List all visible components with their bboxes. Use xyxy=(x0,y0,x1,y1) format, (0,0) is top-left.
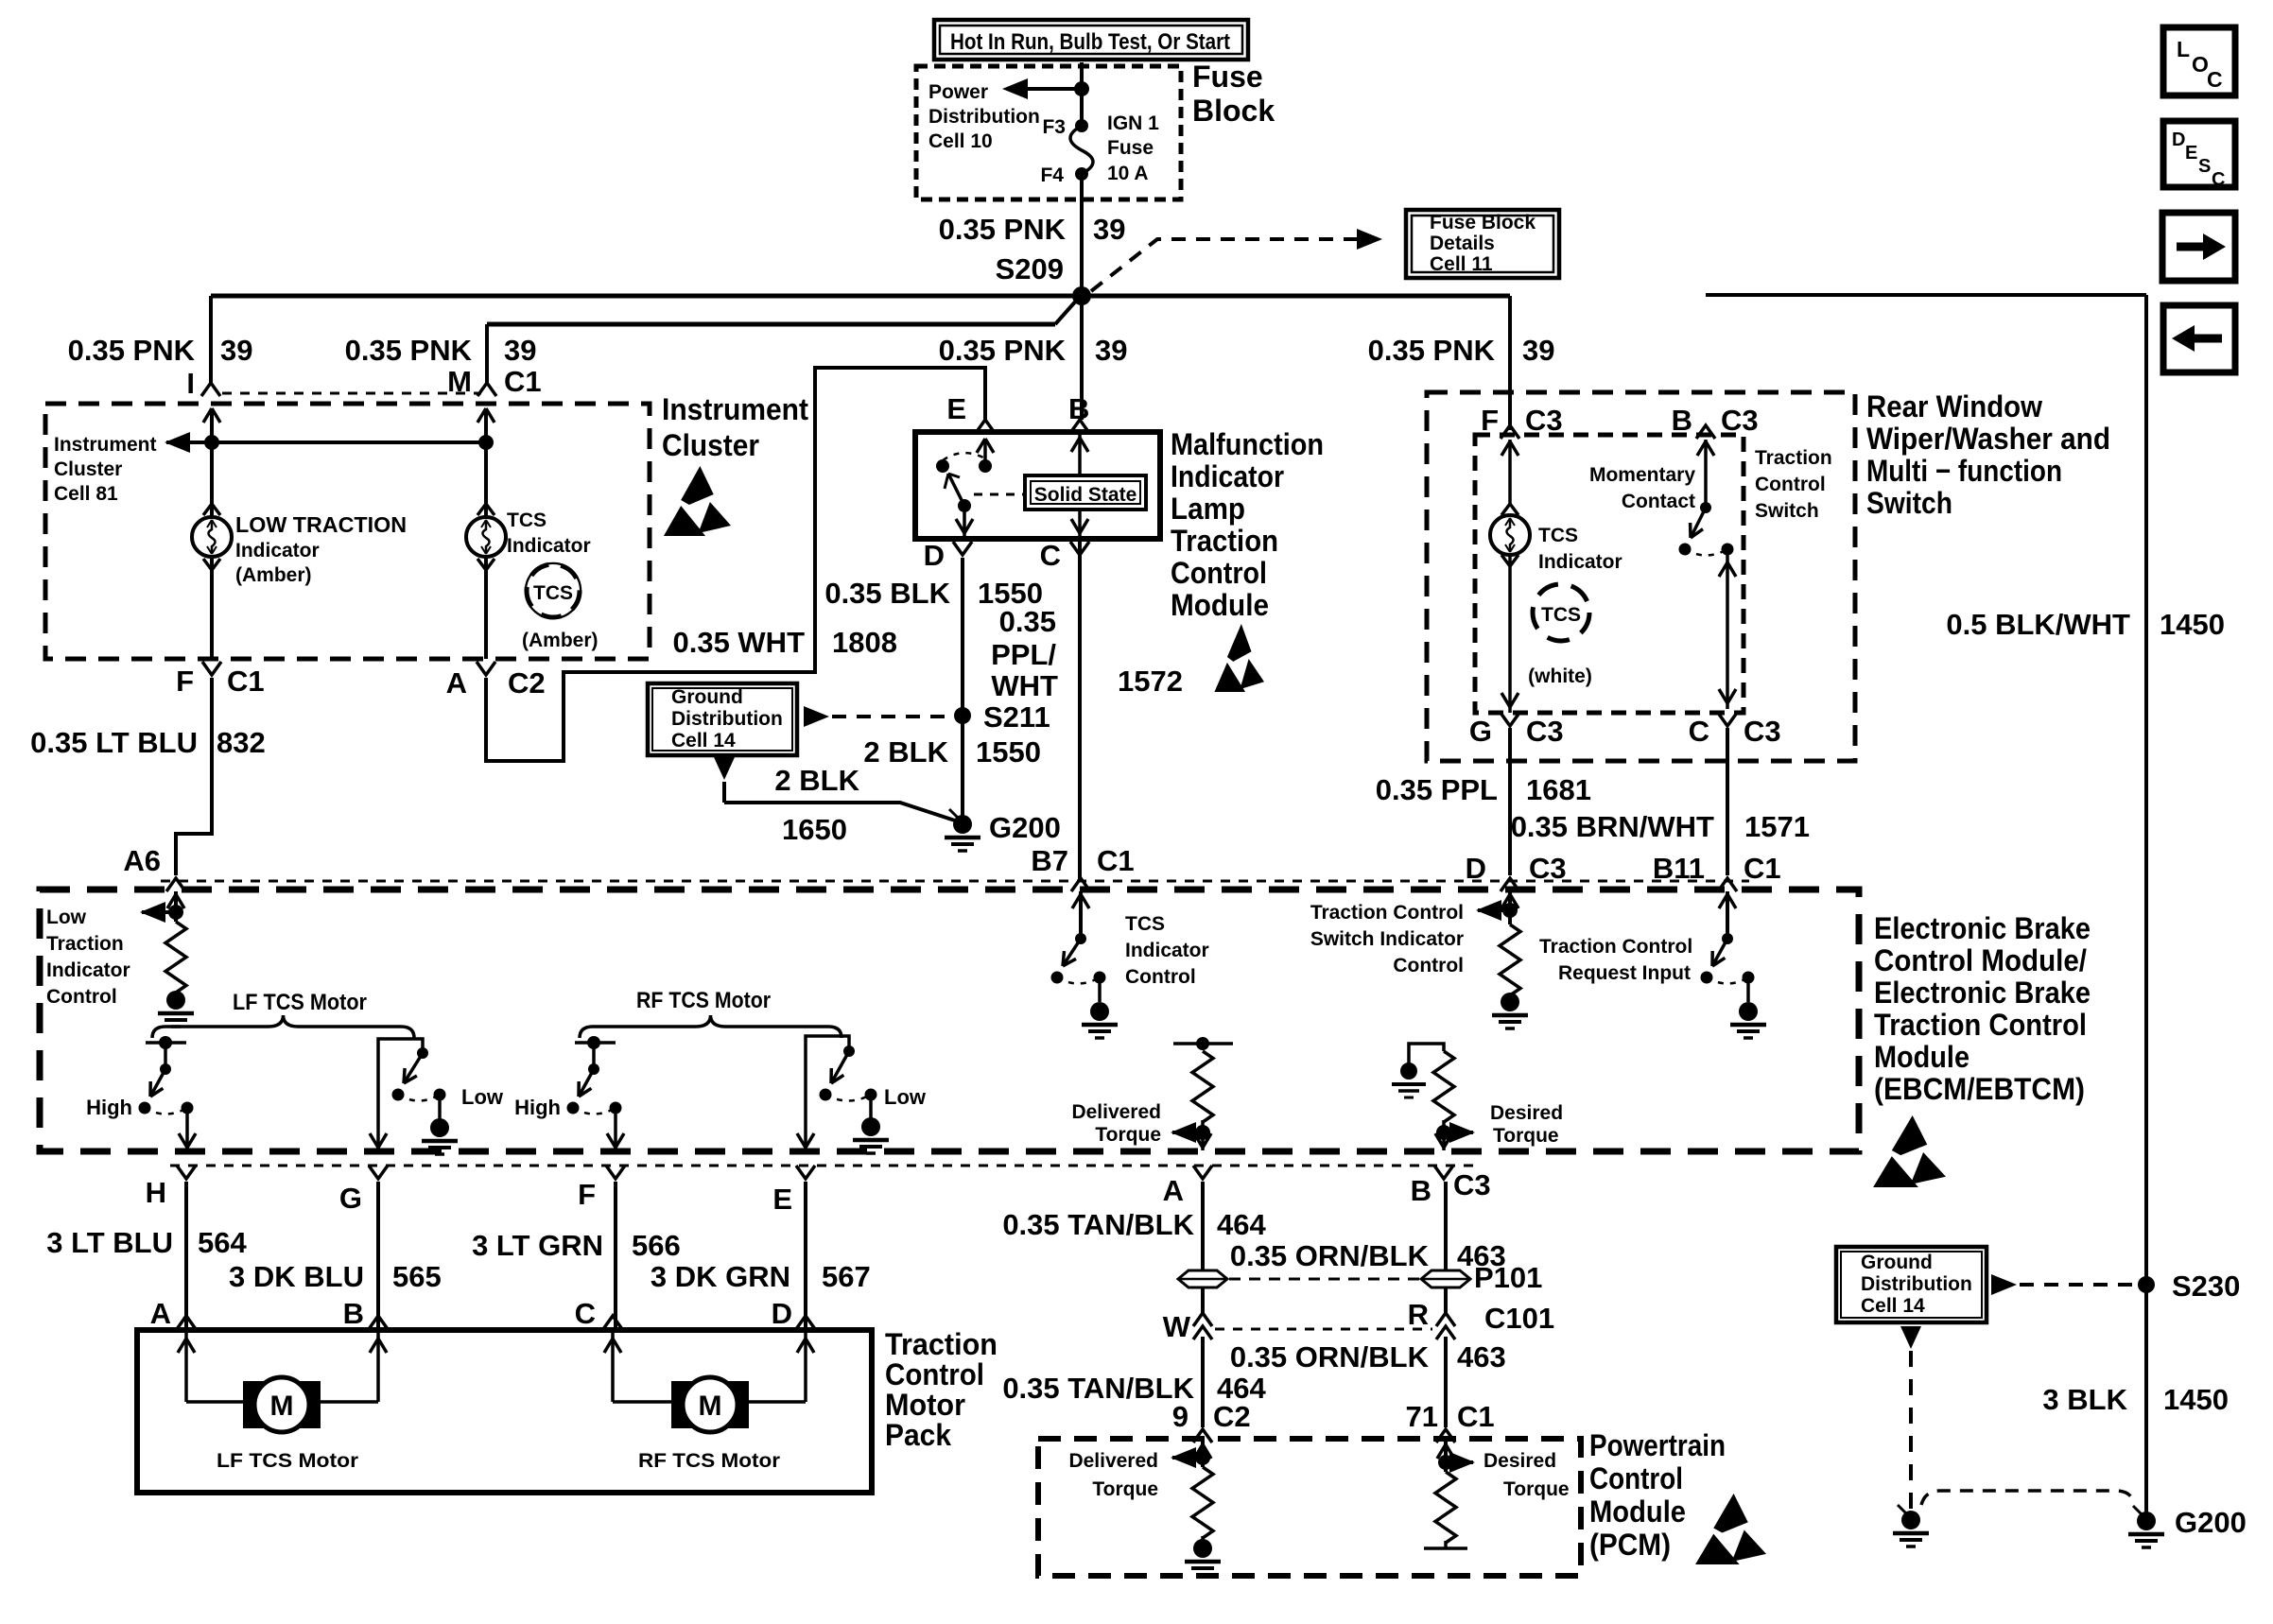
svg-text:Traction: Traction xyxy=(1755,447,1832,469)
svg-text:S209: S209 xyxy=(996,252,1064,285)
svg-text:Cell 81: Cell 81 xyxy=(54,483,118,505)
svg-text:1572: 1572 xyxy=(1118,665,1183,698)
svg-text:Low: Low xyxy=(46,907,87,928)
svg-text:Torque: Torque xyxy=(1493,1125,1559,1147)
svg-text:R: R xyxy=(1408,1298,1429,1331)
svg-text:F: F xyxy=(1481,404,1499,437)
svg-text:C: C xyxy=(2212,169,2225,190)
svg-text:(EBCM/EBTCM): (EBCM/EBTCM) xyxy=(1874,1072,2085,1106)
svg-text:C1: C1 xyxy=(504,365,542,398)
svg-text:Indicator: Indicator xyxy=(46,959,130,981)
svg-text:Details: Details xyxy=(1430,233,1495,254)
svg-text:1571: 1571 xyxy=(1744,810,1810,843)
svg-text:C1: C1 xyxy=(227,665,265,698)
svg-text:IGN 1: IGN 1 xyxy=(1107,112,1159,134)
svg-text:2 BLK: 2 BLK xyxy=(863,735,948,769)
svg-text:Control: Control xyxy=(1171,556,1267,590)
svg-text:3 BLK: 3 BLK xyxy=(2042,1383,2127,1416)
svg-text:Instrument: Instrument xyxy=(662,392,808,426)
svg-text:S211: S211 xyxy=(983,700,1050,734)
svg-text:M: M xyxy=(270,1391,294,1422)
svg-text:Torque: Torque xyxy=(1503,1478,1570,1500)
svg-text:Distribution: Distribution xyxy=(928,106,1040,128)
svg-text:1450: 1450 xyxy=(2163,1383,2229,1416)
svg-text:0.5 BLK/WHT: 0.5 BLK/WHT xyxy=(1946,608,2130,641)
svg-text:Switch: Switch xyxy=(1866,486,1952,520)
svg-text:3 DK BLU: 3 DK BLU xyxy=(229,1260,364,1293)
svg-text:Cluster: Cluster xyxy=(662,428,759,462)
svg-text:Ground: Ground xyxy=(1861,1252,1933,1273)
svg-text:(Amber): (Amber) xyxy=(235,564,312,586)
svg-text:0.35 ORN/BLK: 0.35 ORN/BLK xyxy=(1230,1340,1430,1373)
svg-text:C2: C2 xyxy=(1213,1400,1251,1433)
svg-text:(Amber): (Amber) xyxy=(522,630,599,651)
svg-text:Indicator: Indicator xyxy=(235,540,320,561)
svg-text:Traction Control: Traction Control xyxy=(1539,936,1692,958)
svg-text:L: L xyxy=(2177,37,2190,61)
svg-text:Indicator: Indicator xyxy=(507,535,591,557)
svg-text:Electronic Brake: Electronic Brake xyxy=(1874,976,2091,1010)
svg-text:RF TCS Motor: RF TCS Motor xyxy=(638,1450,780,1472)
svg-text:C3: C3 xyxy=(1453,1168,1491,1201)
svg-text:564: 564 xyxy=(198,1226,247,1259)
svg-text:Traction Control: Traction Control xyxy=(1874,1008,2087,1042)
svg-text:F: F xyxy=(578,1178,596,1211)
svg-text:Request Input: Request Input xyxy=(1558,962,1691,984)
svg-text:0.35 TAN/BLK: 0.35 TAN/BLK xyxy=(1002,1208,1194,1241)
svg-text:Lamp: Lamp xyxy=(1171,492,1245,526)
svg-text:Cell 14: Cell 14 xyxy=(671,730,736,752)
svg-text:B: B xyxy=(1068,392,1089,425)
svg-text:Ground: Ground xyxy=(671,686,743,708)
svg-text:Delivered: Delivered xyxy=(1071,1101,1161,1123)
svg-text:G: G xyxy=(1469,715,1492,748)
svg-text:G200: G200 xyxy=(989,811,1061,844)
svg-text:Powertrain: Powertrain xyxy=(1589,1428,1726,1462)
svg-text:E: E xyxy=(772,1183,792,1216)
svg-text:Fuse Block: Fuse Block xyxy=(1430,212,1536,233)
svg-text:C101: C101 xyxy=(1484,1302,1554,1335)
svg-text:1450: 1450 xyxy=(2160,608,2225,641)
svg-text:LF TCS Motor: LF TCS Motor xyxy=(217,1450,358,1472)
svg-text:463: 463 xyxy=(1457,1340,1506,1373)
svg-text:Instrument: Instrument xyxy=(54,434,157,456)
svg-text:0.35 PNK: 0.35 PNK xyxy=(345,334,473,367)
svg-text:High: High xyxy=(514,1096,561,1119)
svg-text:567: 567 xyxy=(822,1260,871,1293)
svg-text:0.35 TAN/BLK: 0.35 TAN/BLK xyxy=(1002,1372,1194,1405)
svg-text:Torque: Torque xyxy=(1092,1478,1158,1500)
svg-text:C2: C2 xyxy=(508,666,546,700)
svg-text:(PCM): (PCM) xyxy=(1589,1528,1671,1562)
svg-text:71: 71 xyxy=(1406,1400,1438,1433)
svg-text:1808: 1808 xyxy=(832,626,897,659)
svg-text:Delivered: Delivered xyxy=(1068,1450,1158,1472)
svg-text:Cell 14: Cell 14 xyxy=(1861,1295,1925,1317)
svg-text:TCS: TCS xyxy=(1125,913,1165,935)
svg-text:S: S xyxy=(2198,156,2211,177)
svg-text:TCS: TCS xyxy=(1541,604,1581,626)
svg-text:B11: B11 xyxy=(1653,852,1705,885)
svg-text:Cell 10: Cell 10 xyxy=(928,130,993,152)
svg-text:Distribution: Distribution xyxy=(671,708,783,730)
svg-text:W: W xyxy=(1163,1310,1191,1343)
svg-text:WHT: WHT xyxy=(991,669,1058,702)
svg-text:LOW TRACTION: LOW TRACTION xyxy=(235,512,407,537)
svg-text:Traction: Traction xyxy=(1171,524,1278,558)
svg-text:Multi − function: Multi − function xyxy=(1866,454,2062,488)
svg-text:Module: Module xyxy=(1589,1494,1686,1529)
svg-text:Electronic Brake: Electronic Brake xyxy=(1874,911,2091,945)
svg-text:B: B xyxy=(1411,1174,1431,1207)
svg-text:1681: 1681 xyxy=(1526,773,1591,806)
svg-text:0.35 ORN/BLK: 0.35 ORN/BLK xyxy=(1230,1239,1430,1272)
svg-text:Switch Indicator: Switch Indicator xyxy=(1310,928,1464,950)
svg-text:Malfunction: Malfunction xyxy=(1171,427,1324,461)
svg-text:LF TCS Motor: LF TCS Motor xyxy=(233,990,367,1015)
svg-text:TCS: TCS xyxy=(533,582,573,604)
svg-text:C1: C1 xyxy=(1744,852,1781,885)
svg-text:A: A xyxy=(1163,1174,1184,1207)
svg-text:F: F xyxy=(176,665,194,698)
svg-text:1550: 1550 xyxy=(976,735,1041,769)
svg-text:TCS: TCS xyxy=(507,510,547,531)
svg-text:E: E xyxy=(2185,143,2197,164)
svg-text:Fuse: Fuse xyxy=(1107,137,1154,159)
svg-text:0.35 LT BLU: 0.35 LT BLU xyxy=(30,726,198,759)
svg-text:D: D xyxy=(2172,130,2185,150)
svg-text:TCS: TCS xyxy=(1538,525,1578,546)
svg-text:Desired: Desired xyxy=(1490,1102,1563,1124)
svg-text:39: 39 xyxy=(504,334,536,367)
svg-text:0.35 PNK: 0.35 PNK xyxy=(939,213,1067,246)
svg-text:Control: Control xyxy=(1125,966,1196,988)
svg-text:H: H xyxy=(146,1176,166,1209)
svg-text:565: 565 xyxy=(392,1260,442,1293)
svg-text:Module: Module xyxy=(1171,588,1269,622)
svg-text:B: B xyxy=(1672,404,1692,437)
svg-text:C3: C3 xyxy=(1744,715,1781,748)
svg-text:B7: B7 xyxy=(1031,844,1068,877)
svg-text:Switch: Switch xyxy=(1755,500,1819,522)
svg-text:D: D xyxy=(924,539,945,572)
svg-text:A6: A6 xyxy=(123,844,161,877)
svg-text:Pack: Pack xyxy=(885,1418,951,1452)
svg-text:D: D xyxy=(772,1297,792,1330)
svg-text:Control: Control xyxy=(1393,955,1464,976)
svg-text:39: 39 xyxy=(1095,334,1127,367)
svg-text:D: D xyxy=(1466,852,1486,885)
svg-text:C1: C1 xyxy=(1457,1400,1495,1433)
svg-text:1650: 1650 xyxy=(782,813,847,846)
svg-text:Control: Control xyxy=(885,1357,984,1391)
svg-text:M: M xyxy=(699,1391,722,1422)
svg-text:Fuse: Fuse xyxy=(1192,60,1263,94)
svg-text:Indicator: Indicator xyxy=(1171,459,1284,493)
svg-text:39: 39 xyxy=(1093,213,1125,246)
svg-text:0.35 PNK: 0.35 PNK xyxy=(1368,334,1496,367)
svg-text:566: 566 xyxy=(632,1229,681,1262)
svg-text:Traction Control: Traction Control xyxy=(1310,902,1464,924)
svg-text:832: 832 xyxy=(217,726,266,759)
svg-text:0.35 PNK: 0.35 PNK xyxy=(939,334,1067,367)
svg-text:0.35 PNK: 0.35 PNK xyxy=(68,334,196,367)
svg-text:C3: C3 xyxy=(1526,715,1564,748)
svg-text:Control: Control xyxy=(1589,1461,1683,1495)
svg-text:(white): (white) xyxy=(1528,665,1592,687)
svg-text:Indicator: Indicator xyxy=(1125,940,1209,961)
svg-text:Traction: Traction xyxy=(885,1327,998,1361)
svg-text:10 A: 10 A xyxy=(1107,163,1149,184)
svg-text:39: 39 xyxy=(220,334,252,367)
svg-text:F3: F3 xyxy=(1042,116,1066,138)
svg-text:0.35 PPL: 0.35 PPL xyxy=(1376,773,1498,806)
svg-text:C: C xyxy=(1689,715,1709,748)
svg-text:P101: P101 xyxy=(1474,1261,1542,1294)
svg-text:Desired: Desired xyxy=(1484,1450,1556,1472)
svg-text:A: A xyxy=(446,666,467,700)
svg-text:S230: S230 xyxy=(2172,1270,2240,1303)
svg-text:Rear Window: Rear Window xyxy=(1866,389,2042,423)
svg-text:464: 464 xyxy=(1217,1208,1266,1241)
svg-text:G: G xyxy=(339,1182,362,1215)
svg-text:Distribution: Distribution xyxy=(1861,1273,1972,1295)
svg-text:C3: C3 xyxy=(1721,404,1759,437)
svg-text:Motor: Motor xyxy=(885,1388,965,1422)
svg-text:Indicator: Indicator xyxy=(1538,551,1622,573)
svg-text:3 LT BLU: 3 LT BLU xyxy=(46,1226,173,1259)
svg-text:C: C xyxy=(1040,539,1061,572)
svg-text:F4: F4 xyxy=(1040,164,1064,186)
svg-text:Cell 11: Cell 11 xyxy=(1430,253,1493,275)
svg-text:G200: G200 xyxy=(2175,1506,2247,1539)
svg-text:C1: C1 xyxy=(1097,844,1135,877)
svg-text:0.35 WHT: 0.35 WHT xyxy=(672,626,805,659)
svg-text:Torque: Torque xyxy=(1095,1124,1161,1146)
svg-text:Hot In Run, Bulb Test, Or Star: Hot In Run, Bulb Test, Or Start xyxy=(950,29,1230,55)
svg-text:39: 39 xyxy=(1522,334,1554,367)
svg-text:0.35 BLK: 0.35 BLK xyxy=(824,577,950,610)
svg-text:PPL/: PPL/ xyxy=(991,638,1056,671)
svg-text:C: C xyxy=(2207,67,2223,92)
svg-text:3 DK GRN: 3 DK GRN xyxy=(651,1260,790,1293)
svg-text:Module: Module xyxy=(1874,1040,1969,1074)
svg-text:9: 9 xyxy=(1172,1400,1189,1433)
svg-text:RF TCS Motor: RF TCS Motor xyxy=(636,988,771,1013)
svg-text:E: E xyxy=(946,392,966,425)
svg-text:Low: Low xyxy=(461,1085,504,1109)
svg-text:Contact: Contact xyxy=(1622,491,1695,512)
svg-text:Block: Block xyxy=(1192,94,1275,128)
svg-text:0.35 BRN/WHT: 0.35 BRN/WHT xyxy=(1511,810,1714,843)
svg-text:Wiper/Washer and: Wiper/Washer and xyxy=(1866,422,2110,456)
svg-text:Control: Control xyxy=(1755,474,1826,495)
svg-text:Traction: Traction xyxy=(46,933,124,955)
svg-text:B: B xyxy=(343,1297,364,1330)
svg-text:2 BLK: 2 BLK xyxy=(774,764,859,797)
svg-text:Low: Low xyxy=(884,1085,927,1109)
svg-text:Control Module/: Control Module/ xyxy=(1874,943,2087,977)
svg-text:High: High xyxy=(86,1096,132,1119)
svg-text:A: A xyxy=(150,1297,171,1330)
svg-text:C: C xyxy=(575,1297,596,1330)
svg-text:Solid State: Solid State xyxy=(1034,484,1137,506)
svg-text:0.35: 0.35 xyxy=(999,605,1056,638)
svg-text:3 LT GRN: 3 LT GRN xyxy=(472,1229,603,1262)
svg-text:Momentary: Momentary xyxy=(1589,464,1695,486)
svg-text:Control: Control xyxy=(46,986,117,1008)
svg-text:Power: Power xyxy=(928,81,988,103)
svg-text:Cluster: Cluster xyxy=(54,458,122,480)
svg-text:C3: C3 xyxy=(1529,852,1567,885)
svg-text:I: I xyxy=(186,367,195,400)
svg-text:C3: C3 xyxy=(1525,404,1563,437)
